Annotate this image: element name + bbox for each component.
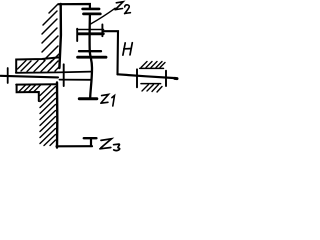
frame bottom arm (57, 145, 93, 147)
fixed wheel z3 stem (90, 139, 92, 146)
bearing block lower top edge (frame) (16, 83, 57, 85)
bearing tick at wall (63, 64, 65, 86)
carrier hub bar (79, 32, 104, 35)
output bearing lower hatching (142, 85, 162, 93)
output bearing left tick (136, 69, 138, 87)
carrier elbow (104, 31, 119, 74)
planet gear z2 stem and sun gear z1 body (90, 15, 92, 97)
input shaft end cap (7, 68, 9, 83)
label H (123, 43, 132, 55)
sleeve lower line (60, 79, 92, 81)
planet small gear rim (79, 50, 101, 52)
carrier arm left cap (76, 29, 78, 41)
planet big gear rim (84, 13, 101, 16)
frame wall upper hatching (42, 4, 59, 63)
label z2 (115, 2, 130, 14)
frame wall lower edge (56, 83, 59, 148)
frame wall lower hatching (19, 85, 56, 146)
frame wall upper edge (59, 4, 61, 68)
input shaft 1 (1, 76, 59, 78)
sun gear z1 bottom rim (79, 97, 97, 100)
output bearing lower baseline (141, 83, 161, 85)
label z3 (100, 139, 120, 151)
carrier arm right cap (101, 25, 103, 37)
leader line to z2 (91, 8, 115, 24)
bearing block upper (frame) (16, 57, 60, 72)
output bearing upper hatching (141, 62, 165, 68)
output shaft of carrier H (118, 74, 176, 78)
ring gear top rim (83, 8, 100, 11)
frame top bracket (59, 4, 90, 8)
sun gear z1 top rim (78, 56, 106, 59)
fixed wheel z3 rim (84, 137, 97, 139)
bearing block upper bottom edge and sleeve upper line (16, 72, 91, 73)
label z1 (101, 94, 115, 106)
bearing block lower outline (frame) (17, 85, 39, 101)
bearing block upper hatching (18, 61, 61, 72)
output shaft end (175, 77, 177, 80)
carrier H arm axle line (77, 29, 104, 31)
output bearing right tick (165, 71, 167, 86)
output bearing upper baseline (140, 67, 164, 69)
